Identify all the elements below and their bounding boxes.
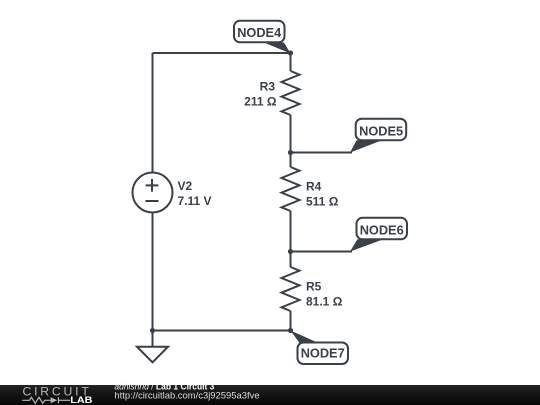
- node NODE4 callout box: [234, 21, 285, 43]
- wire bottom horizontal: [153, 330, 291, 332]
- V2 plus sign: [146, 179, 159, 192]
- svg-text:LAB: LAB: [70, 395, 92, 405]
- svg-text:R3: R3: [260, 80, 276, 94]
- logo diode triangle: [51, 397, 58, 403]
- svg-text:R4: R4: [306, 180, 322, 194]
- node NODE5 callout box: [356, 119, 407, 141]
- wire node6 stub horizontal: [291, 251, 353, 253]
- resistor R3: [282, 71, 300, 115]
- wire R4 to node6: [290, 211, 292, 252]
- node4 callout tail: [264, 43, 291, 54]
- ground stub: [152, 331, 154, 347]
- svg-text:http://circuitlab.com/c3j92595: http://circuitlab.com/c3j92595a3fve: [114, 390, 259, 400]
- junction dot node5: [288, 150, 293, 155]
- wire node5 stub horizontal: [291, 152, 353, 154]
- logo squiggle wire with resistor and diode: [22, 397, 70, 403]
- svg-text:81.1 Ω: 81.1 Ω: [306, 295, 343, 309]
- svg-text:NODE4: NODE4: [237, 25, 282, 40]
- resistor R5: [282, 267, 300, 311]
- svg-text:211 Ω: 211 Ω: [244, 95, 277, 109]
- node6 callout tail: [350, 239, 383, 251]
- junction dot node6: [288, 249, 293, 254]
- node NODE7 callout box: [298, 343, 349, 365]
- svg-text:7.11 V: 7.11 V: [178, 194, 212, 208]
- node5 callout tail: [350, 140, 382, 152]
- V2 minus sign: [146, 200, 159, 202]
- svg-text:511 Ω: 511 Ω: [306, 195, 339, 209]
- voltage source V2 circle: [133, 173, 173, 213]
- svg-text:R5: R5: [306, 280, 322, 294]
- footer bar: [0, 385, 540, 405]
- junction dot node7: [288, 328, 293, 333]
- node7 callout tail: [291, 331, 319, 344]
- wire node5 to R4: [290, 153, 292, 168]
- wire right segment node4 to R3: [290, 53, 292, 71]
- resistor R4: [282, 167, 300, 211]
- ground triangle: [137, 347, 168, 363]
- wire R3 to node5: [290, 115, 292, 153]
- node NODE6 callout box: [357, 218, 408, 240]
- wire R5 to node7: [290, 311, 292, 331]
- wire top horizontal: [153, 52, 291, 54]
- svg-text:NODE6: NODE6: [360, 223, 404, 238]
- wire left vertical lower: [152, 213, 154, 331]
- svg-text:V2: V2: [178, 179, 193, 193]
- svg-text:NODE5: NODE5: [359, 124, 403, 139]
- svg-text:NODE7: NODE7: [301, 345, 345, 360]
- junction dot node4: [288, 50, 293, 55]
- wire node6 to R5: [290, 252, 292, 268]
- junction dot ground: [150, 328, 155, 333]
- wire left vertical upper: [152, 53, 154, 173]
